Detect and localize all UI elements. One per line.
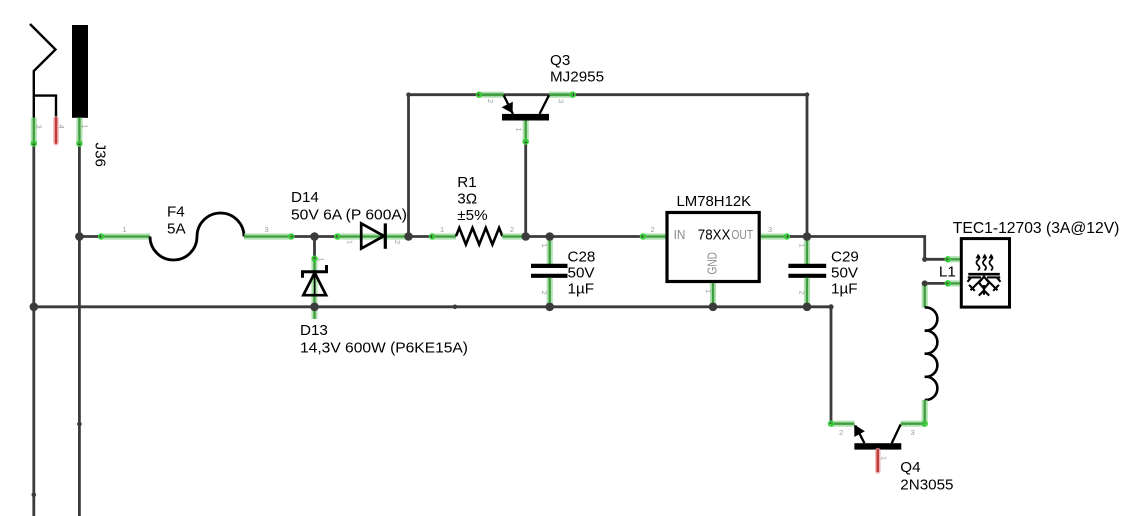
diode D14 triangle: [361, 223, 384, 248]
svg-text:MJ2955: MJ2955: [550, 68, 604, 85]
svg-text:±5%: ±5%: [457, 207, 487, 224]
svg-text:50V: 50V: [568, 265, 596, 282]
svg-text:C28: C28: [568, 249, 596, 266]
junction dot: C28 top: [545, 232, 554, 241]
svg-text:2: 2: [798, 291, 807, 295]
zener D13 bar with bent ends: [303, 265, 327, 278]
bend point: ground rail: [453, 305, 458, 310]
svg-text:2N3055: 2N3055: [900, 476, 953, 493]
transistor Q4 emitter line: [855, 426, 864, 444]
junction dot: R1 / Q3 base: [521, 232, 530, 241]
transistor Q3 emitter leg (pin 2): [479, 92, 504, 98]
junction dot: jack pin1 / main rail: [75, 232, 84, 241]
svg-text:2: 2: [839, 428, 843, 437]
junction dot: D13 ground: [310, 303, 319, 312]
resistor R1 pin 2 leg: [502, 233, 525, 239]
wire: regulator output to C29 junction: [787, 235, 807, 238]
junction dot: regulator GND: [709, 303, 718, 312]
endpoint markers (bright green connection rings, under): [31, 92, 951, 427]
TEC1-12703 peltier box: [961, 239, 1009, 308]
TEC separator bar: [968, 273, 1000, 276]
svg-text:2: 2: [540, 291, 549, 295]
bend point: jack pin3 wire: [32, 493, 37, 498]
regulator U1 LM78H12K box: [667, 213, 759, 282]
capacitor C29 plates: [788, 266, 826, 276]
junction dot: ground rail left corner: [30, 303, 39, 312]
svg-text:LM78H12K: LM78H12K: [677, 193, 752, 210]
svg-text:50V: 50V: [831, 265, 859, 282]
wire: vertical from jack pin 1 down to bottom edge: [78, 144, 81, 516]
transistor Q3 base bar: [502, 114, 549, 121]
wire: C28 junction to regulator input: [550, 235, 643, 238]
wire: Q3 base down to main rail: [524, 142, 527, 237]
wire: bottom ground rail: [34, 307, 831, 424]
regulator U1 output leg (pin 3): [761, 233, 787, 239]
regulator U1 input leg (pin 2): [643, 233, 666, 239]
svg-text:D13: D13: [300, 322, 328, 339]
inductor L1 coil: [925, 307, 938, 400]
TEC heat waves: [976, 256, 992, 271]
diode D14 cathode bar: [384, 223, 387, 248]
svg-text:Q3: Q3: [550, 52, 570, 69]
svg-text:L1: L1: [939, 264, 956, 281]
transistor Q4 emitter arrow (points away from bar, NPN): [854, 425, 865, 437]
bend point: TEC wire corner: [922, 257, 927, 262]
junction dot: D14 cathode / Q3 loop: [404, 232, 413, 241]
svg-text:5A: 5A: [167, 221, 186, 238]
svg-text:50V 6A (P 600A): 50V 6A (P 600A): [291, 206, 407, 223]
capacitor C28 pin 2 leg: [547, 278, 553, 307]
connector J36 body bar: [72, 25, 88, 118]
resistor R1 pin 1 leg: [432, 233, 456, 239]
wire: D14 cathode junction to R1: [409, 235, 433, 238]
wire: D14 junction down to D13: [313, 237, 316, 259]
transistor Q4 base bar: [854, 443, 901, 449]
svg-text:2: 2: [510, 225, 514, 234]
wire: fuse to D14 anode: [291, 235, 337, 238]
transistor Q4 collector line: [892, 425, 901, 444]
svg-text:TEC1-12703 (3A@12V): TEC1-12703 (3A@12V): [953, 220, 1120, 237]
svg-text:Q4: Q4: [900, 459, 920, 476]
bend point: ground rail corner: [828, 304, 833, 309]
J36 pin 3 leg: [31, 118, 37, 144]
junction dot: C28 bottom: [545, 303, 554, 312]
transistor Q4 collector leg (pin 3): [901, 421, 925, 427]
svg-text:1µF: 1µF: [831, 281, 857, 298]
svg-text:1: 1: [880, 456, 889, 460]
bend point: jack pin1 wire: [77, 422, 82, 427]
diode D14 pin legs (green line passes behind symbol): [337, 233, 408, 239]
svg-text:2: 2: [393, 240, 402, 244]
endpoint markers (bright green connection rings, over): [32, 92, 951, 426]
svg-text:1: 1: [704, 289, 713, 293]
zener D13 triangle: [303, 273, 326, 295]
svg-text:3Ω: 3Ω: [457, 191, 477, 208]
svg-text:1: 1: [540, 244, 549, 248]
transistor Q3 emitter line: [504, 95, 513, 114]
capacitor C28 plates: [531, 266, 568, 276]
capacitor C29 pin 2 leg: [804, 278, 810, 307]
svg-text:1: 1: [440, 225, 444, 234]
resistor R1 zigzag body: [456, 228, 502, 245]
svg-text:1: 1: [346, 240, 355, 244]
transistor Q3 base leg (pin 1): [523, 118, 529, 142]
J36 pin 1 leg: [76, 118, 82, 144]
fuse F4 pin 1 leg: [101, 233, 150, 239]
TEC pin 2 leg: [948, 280, 960, 286]
svg-text:2: 2: [651, 225, 655, 234]
svg-text:1: 1: [123, 225, 127, 234]
svg-text:3: 3: [35, 125, 44, 129]
svg-text:1: 1: [798, 244, 807, 248]
transistor Q4 base leg (pin 1, unconnected red): [875, 451, 881, 472]
svg-text:OUT: OUT: [731, 227, 753, 242]
svg-text:D14: D14: [291, 189, 319, 206]
wire: main rail segment jack to fuse: [79, 235, 101, 238]
svg-text:3: 3: [265, 225, 269, 234]
capacitor C29 pin 1 leg: [804, 237, 810, 265]
TEC snowflake: [968, 277, 1001, 296]
inductor L1 top leg: [922, 283, 928, 307]
svg-text:2: 2: [486, 99, 495, 103]
svg-text:1: 1: [317, 258, 326, 262]
junction dot: D14 anode / D13: [310, 232, 319, 241]
zener D13 pin legs (green line passes behind symbol): [311, 259, 317, 319]
transistor Q4 emitter leg (pin 2): [831, 421, 854, 427]
wire: C29 junction right then down to TEC pin 1: [807, 237, 948, 260]
svg-text:1µF: 1µF: [568, 281, 594, 298]
svg-text:GND: GND: [704, 252, 719, 274]
bend point: Q3 loop left corner: [406, 92, 411, 97]
svg-text:1: 1: [515, 128, 524, 132]
inductor L1 bottom leg: [922, 400, 928, 424]
wire: left vertical from jack pin 3 down to bottom edge: [32, 144, 35, 516]
svg-text:3: 3: [557, 99, 566, 103]
J36 pin 4 leg (unconnected, red): [53, 119, 59, 143]
svg-text:3: 3: [768, 225, 772, 234]
transistor Q3 collector line: [540, 95, 549, 114]
transistor Q3 emitter arrow (points into bar, PNP): [502, 102, 513, 114]
svg-text:R1: R1: [457, 174, 476, 191]
svg-text:4: 4: [57, 125, 66, 129]
svg-text:3: 3: [911, 428, 915, 437]
capacitor C28 pin 1 leg: [547, 237, 553, 265]
junction dot: C29 bottom: [803, 303, 812, 312]
junction dot: regulator out / C29 / Q3 loop: [803, 232, 812, 241]
svg-text:J36: J36: [92, 143, 109, 168]
connector J36 zigzag contact: [30, 24, 56, 118]
wire: Q3 collector loop top rail: [409, 95, 808, 237]
transistor Q3 collector leg (pin 3): [549, 92, 573, 98]
svg-text:78XX: 78XX: [698, 228, 731, 244]
svg-text:F4: F4: [167, 203, 185, 220]
regulator U1 ground leg (pin 1): [710, 283, 716, 307]
svg-text:IN: IN: [674, 227, 686, 242]
wire: R1 to C28 junction: [526, 235, 550, 238]
svg-text:1: 1: [80, 125, 89, 129]
fuse F4 body: [150, 213, 244, 260]
bend point: L1 / TEC pin 2 node: [922, 280, 928, 286]
wire: L1 top node to TEC pin 2: [925, 282, 948, 285]
fuse F4 pin 3 leg: [244, 233, 291, 239]
svg-text:C29: C29: [831, 249, 859, 266]
svg-text:14,3V 600W (P6KE15A): 14,3V 600W (P6KE15A): [300, 340, 468, 357]
bend point: Q3 loop right corner: [805, 92, 810, 97]
zener D13 center line: [314, 273, 316, 295]
TEC heat arrowheads: [976, 254, 994, 259]
TEC pin 1 leg: [948, 256, 960, 262]
connector J36 elbow to pin 4: [34, 96, 56, 118]
